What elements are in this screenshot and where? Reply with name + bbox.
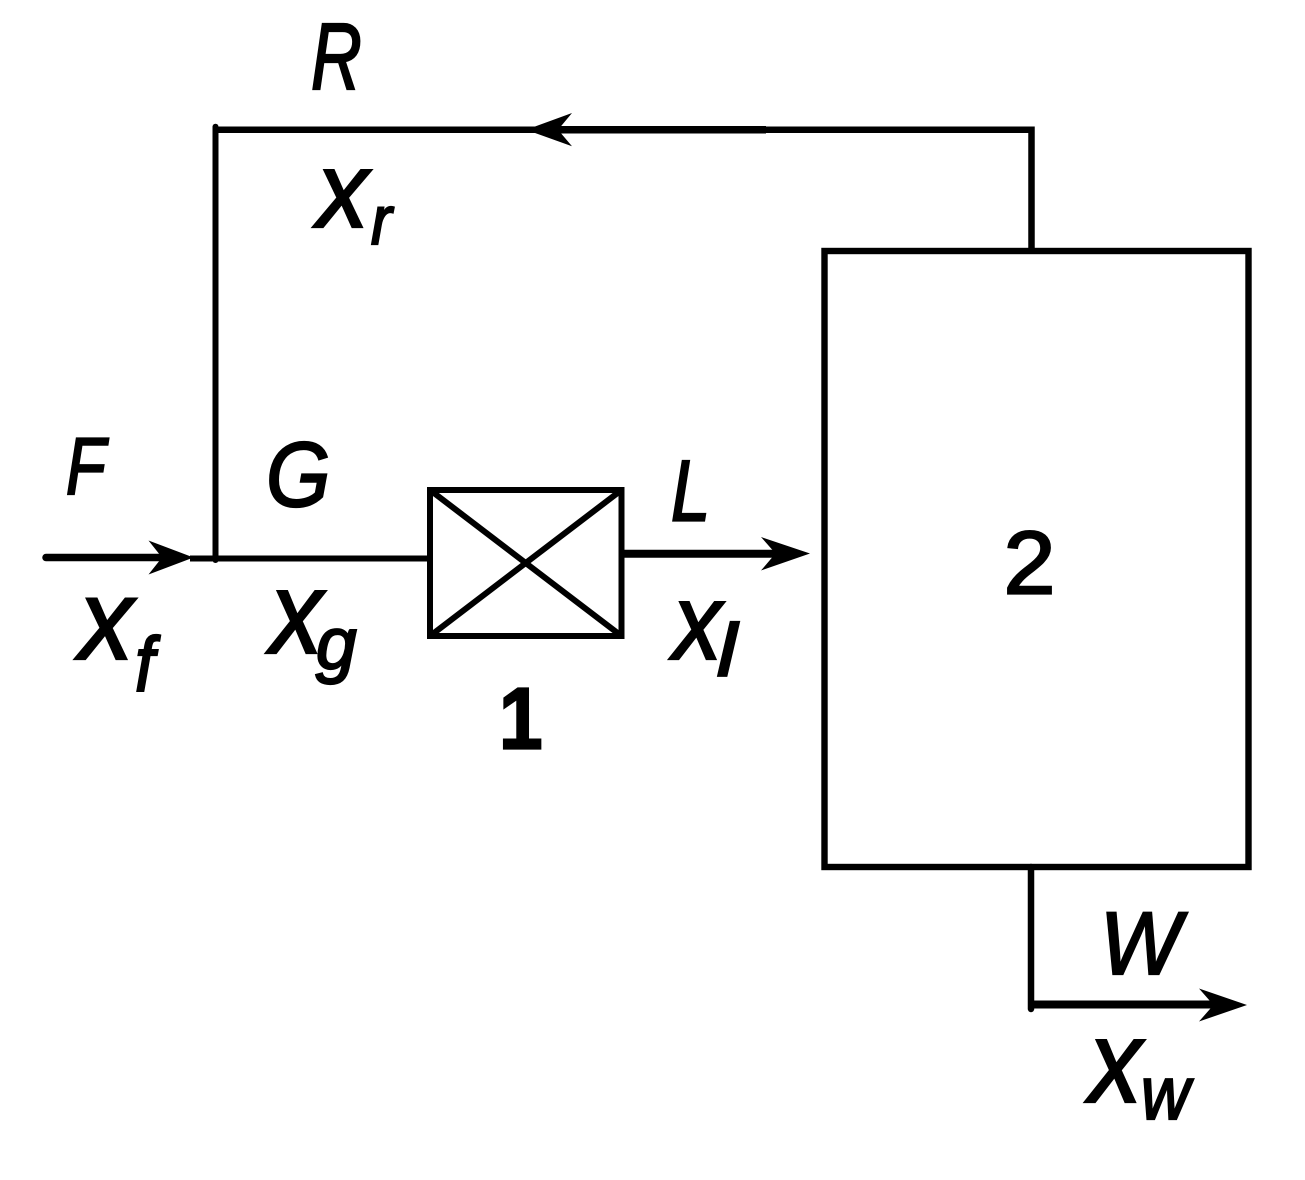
mixer unit 1 diagonal \	[430, 490, 622, 636]
wire: recycle top horizontal R line	[213, 127, 1032, 134]
subscript w	[1141, 1052, 1194, 1136]
recycle arrow shaft overlay	[558, 126, 766, 134]
svg-text:1: 1	[499, 670, 543, 768]
mixer unit 1 diagonal /	[430, 490, 622, 636]
label R	[311, 3, 362, 110]
feed arrow F shaft	[46, 554, 168, 562]
wire G: junction to unit 1	[190, 556, 433, 562]
label x_g	[265, 547, 326, 678]
svg-text:2: 2	[1004, 514, 1056, 613]
label x_w	[1084, 996, 1145, 1127]
svg-text:x: x	[1084, 996, 1145, 1127]
svg-text:g: g	[316, 604, 357, 685]
svg-text:w: w	[1141, 1052, 1194, 1136]
label G	[266, 423, 330, 526]
label x_r	[312, 131, 371, 251]
svg-text:R: R	[311, 3, 362, 110]
svg-text:G: G	[266, 423, 330, 526]
svg-text:W: W	[1100, 894, 1188, 993]
stream L arrow shaft	[622, 550, 777, 558]
label F	[66, 421, 109, 512]
stream L arrow head	[761, 537, 810, 571]
separator unit 2 box	[825, 251, 1249, 867]
wire: recycle right vertical leg	[1028, 127, 1035, 252]
subscript f	[135, 622, 161, 708]
label L	[671, 443, 710, 539]
label W	[1100, 894, 1188, 993]
svg-text:x: x	[312, 131, 371, 251]
svg-text:r: r	[371, 182, 395, 259]
wire: bottoms W vertical leg	[1028, 867, 1035, 1009]
label x_l	[668, 561, 725, 682]
svg-text:F: F	[66, 421, 109, 512]
feed arrow F head	[149, 541, 194, 575]
mixer unit 1 box	[430, 490, 622, 636]
svg-text:x: x	[74, 555, 136, 683]
unit label 1	[499, 670, 543, 768]
wire: recycle left vertical leg	[213, 127, 219, 560]
svg-text:l: l	[717, 610, 739, 692]
subscript r	[371, 182, 395, 259]
bottoms W arrow head	[1199, 989, 1247, 1022]
label x_f	[74, 555, 136, 683]
subscript g	[316, 604, 357, 685]
unit label 2	[1004, 514, 1056, 613]
subscript l	[717, 610, 739, 692]
bottoms W arrow shaft	[1031, 1001, 1214, 1009]
recycle arrow head (points left)	[526, 113, 572, 146]
svg-text:L: L	[671, 443, 710, 539]
